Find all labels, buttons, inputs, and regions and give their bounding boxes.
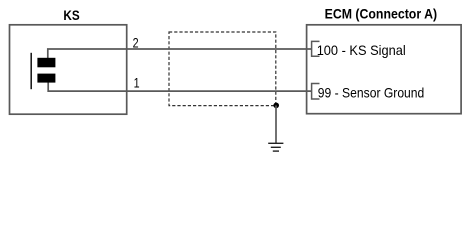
shielded cable (dashed shield box) xyxy=(169,32,276,106)
svg-text:2: 2 xyxy=(133,35,139,51)
ground wire stem xyxy=(275,105,277,143)
ground symbol bar 2 xyxy=(271,146,281,148)
svg-text:99 - Sensor Ground: 99 - Sensor Ground xyxy=(318,85,425,101)
ground symbol bar 1 xyxy=(268,142,283,144)
svg-text:KS: KS xyxy=(63,7,79,23)
svg-text:1: 1 xyxy=(134,74,140,90)
ground symbol bar 3 xyxy=(273,150,279,152)
junction dot (shield to ground) xyxy=(273,103,279,109)
KS component box xyxy=(10,25,127,114)
wire: KS pin 1 to ECM pin 99 xyxy=(48,82,311,91)
ECM connector box xyxy=(307,25,462,114)
svg-text:100 - KS Signal: 100 - KS Signal xyxy=(317,42,406,58)
ECM pin 100 terminal bracket xyxy=(312,41,320,56)
ECM pin 99 terminal bracket xyxy=(312,84,320,100)
knock sensor KS: piezo element lower block xyxy=(37,74,55,83)
knock sensor KS: left electrode plate xyxy=(30,53,32,89)
svg-text:ECM (Connector A): ECM (Connector A) xyxy=(325,5,438,21)
wire: KS pin 2 to ECM pin 100 xyxy=(48,49,312,58)
knock sensor KS: piezo element upper block xyxy=(37,58,55,68)
